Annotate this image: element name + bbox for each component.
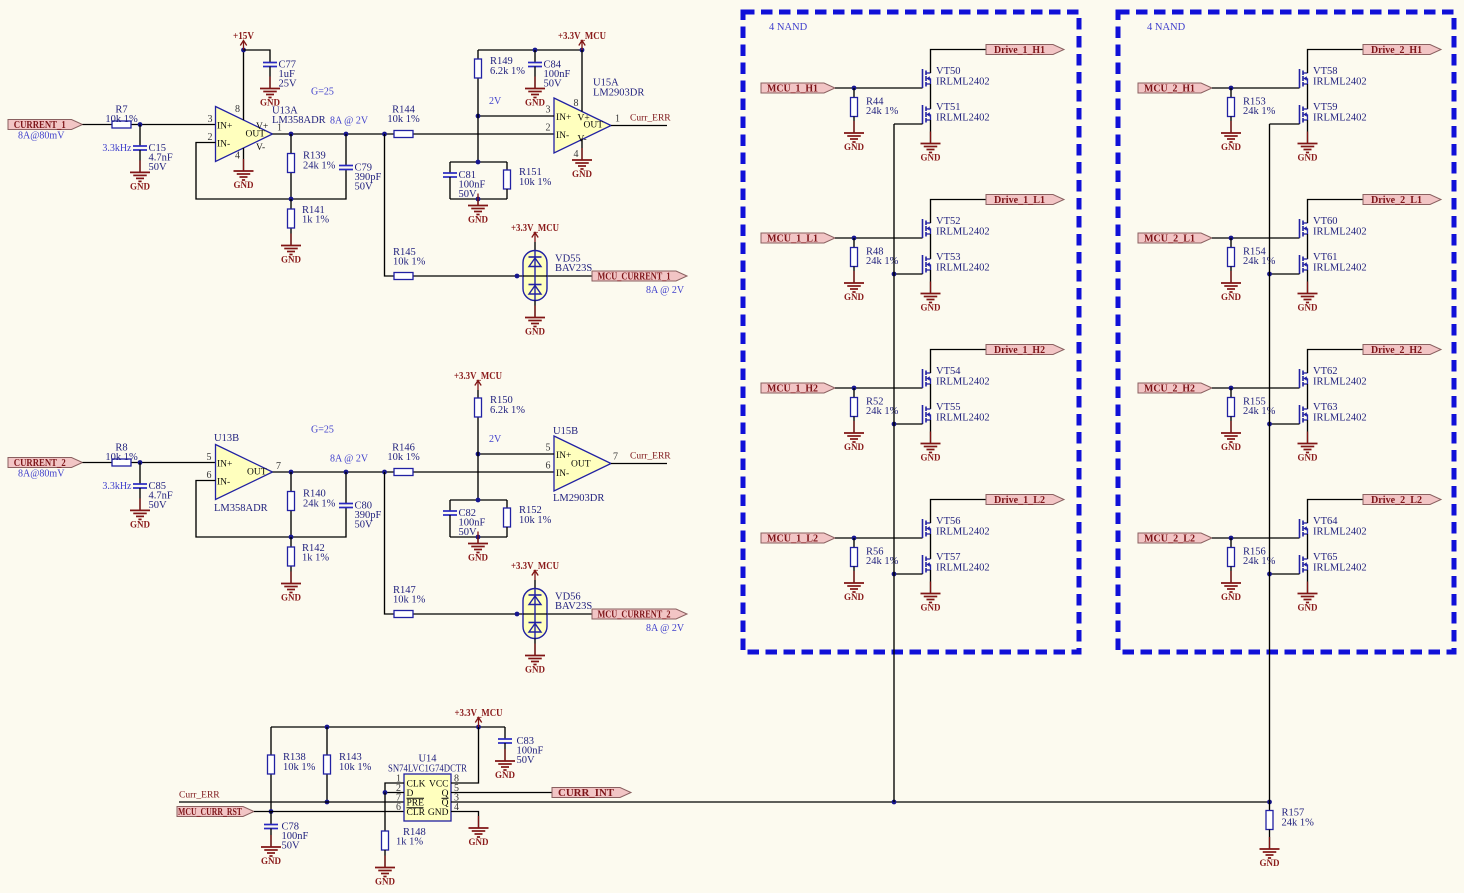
svg-text:IRLML2402: IRLML2402	[936, 263, 990, 274]
svg-text:VT56: VT56	[936, 516, 961, 527]
svg-text:PRE: PRE	[407, 799, 425, 809]
svg-text:VT59: VT59	[1313, 102, 1338, 113]
svg-text:GND: GND	[921, 303, 942, 313]
svg-text:GND: GND	[469, 837, 490, 847]
svg-text:8A@80mV: 8A@80mV	[18, 469, 65, 480]
svg-text:IRLML2402: IRLML2402	[936, 563, 990, 574]
svg-text:IRLML2402: IRLML2402	[936, 113, 990, 124]
svg-text:24k 1%: 24k 1%	[303, 161, 336, 172]
svg-text:4 NAND: 4 NAND	[1147, 22, 1186, 33]
svg-text:IN-: IN-	[556, 131, 569, 141]
svg-text:50V: 50V	[355, 182, 374, 193]
svg-text:+3.3V_MCU: +3.3V_MCU	[454, 371, 502, 382]
svg-text:6.2k 1%: 6.2k 1%	[490, 405, 525, 416]
svg-text:IN+: IN+	[217, 122, 232, 132]
svg-text:VT61: VT61	[1313, 252, 1338, 263]
svg-text:24k 1%: 24k 1%	[303, 499, 336, 510]
svg-text:GND: GND	[260, 98, 281, 108]
svg-text:5: 5	[207, 452, 212, 463]
svg-text:Drive_2_H1: Drive_2_H1	[1371, 45, 1422, 56]
svg-text:2V: 2V	[489, 434, 502, 445]
svg-text:IRLML2402: IRLML2402	[1313, 77, 1367, 88]
svg-text:GND: GND	[525, 665, 546, 675]
svg-text:3: 3	[546, 105, 551, 116]
svg-text:10k 1%: 10k 1%	[519, 177, 552, 188]
svg-text:LM2903DR: LM2903DR	[553, 493, 604, 504]
svg-text:8: 8	[235, 104, 240, 115]
svg-text:GND: GND	[234, 180, 255, 190]
svg-text:10k 1%: 10k 1%	[105, 114, 138, 125]
svg-text:3: 3	[208, 114, 213, 125]
svg-text:VT65: VT65	[1313, 552, 1338, 563]
svg-text:IRLML2402: IRLML2402	[1313, 113, 1367, 124]
svg-text:1k 1%: 1k 1%	[302, 215, 329, 226]
svg-text:Curr_ERR: Curr_ERR	[630, 452, 671, 462]
svg-text:10k 1%: 10k 1%	[393, 595, 426, 606]
svg-text:7: 7	[613, 452, 618, 463]
svg-text:10k 1%: 10k 1%	[393, 257, 426, 268]
svg-text:10k 1%: 10k 1%	[387, 114, 420, 125]
svg-text:GND: GND	[1298, 603, 1319, 613]
svg-text:VT55: VT55	[936, 402, 961, 413]
svg-text:GND: GND	[1221, 142, 1242, 152]
svg-text:Curr_ERR: Curr_ERR	[630, 114, 671, 124]
svg-text:+15V: +15V	[233, 31, 255, 42]
svg-text:VT62: VT62	[1313, 366, 1338, 377]
svg-text:MCU_CURR_RST: MCU_CURR_RST	[178, 807, 242, 818]
svg-text:VT64: VT64	[1313, 516, 1338, 527]
svg-text:VT57: VT57	[936, 552, 961, 563]
svg-text:25V: 25V	[279, 79, 298, 90]
svg-text:GND: GND	[921, 603, 942, 613]
svg-text:24k 1%: 24k 1%	[1243, 556, 1276, 567]
svg-text:GND: GND	[1221, 592, 1242, 602]
svg-text:OUT: OUT	[571, 460, 591, 470]
svg-text:GND: GND	[525, 327, 546, 337]
svg-text:3.3kHz: 3.3kHz	[102, 481, 132, 492]
svg-text:Drive_1_H2: Drive_1_H2	[994, 345, 1045, 356]
svg-text:GND: GND	[921, 153, 942, 163]
svg-text:1: 1	[277, 123, 282, 134]
svg-text:4 NAND: 4 NAND	[769, 22, 808, 33]
svg-text:1k 1%: 1k 1%	[302, 553, 329, 564]
svg-text:50V: 50V	[544, 79, 563, 90]
svg-text:GND: GND	[468, 553, 489, 563]
svg-text:MCU_1_H1: MCU_1_H1	[767, 84, 818, 95]
svg-text:IN+: IN+	[217, 460, 232, 470]
svg-text:IN-: IN-	[217, 478, 230, 488]
svg-text:U15B: U15B	[553, 426, 578, 437]
svg-text:IRLML2402: IRLML2402	[1313, 563, 1367, 574]
svg-text:MCU_1_H2: MCU_1_H2	[767, 384, 818, 395]
svg-text:V+: V+	[256, 122, 268, 132]
svg-text:LM358ADR: LM358ADR	[214, 503, 268, 514]
svg-text:MCU_2_H1: MCU_2_H1	[1144, 84, 1195, 95]
svg-text:VT63: VT63	[1313, 402, 1338, 413]
svg-text:7: 7	[276, 461, 281, 472]
svg-text:GND: GND	[1221, 292, 1242, 302]
svg-text:GND: GND	[495, 770, 516, 780]
svg-text:GND: GND	[261, 856, 282, 866]
svg-text:MCU_CURRENT_2: MCU_CURRENT_2	[598, 610, 671, 621]
svg-text:8: 8	[574, 98, 579, 109]
svg-text:CLR: CLR	[407, 808, 426, 818]
svg-text:10k 1%: 10k 1%	[105, 452, 138, 463]
svg-text:24k 1%: 24k 1%	[1243, 256, 1276, 267]
svg-text:IRLML2402: IRLML2402	[1313, 263, 1367, 274]
svg-text:50V: 50V	[149, 162, 168, 173]
svg-text:6: 6	[207, 470, 212, 481]
svg-text:GND: GND	[130, 181, 151, 191]
svg-text:GND: GND	[1298, 303, 1319, 313]
svg-text:GND: GND	[921, 453, 942, 463]
svg-text:GND: GND	[130, 519, 151, 529]
svg-text:IN-: IN-	[217, 140, 230, 150]
svg-text:GND: GND	[1298, 153, 1319, 163]
svg-text:+3.3V_MCU: +3.3V_MCU	[511, 561, 559, 572]
svg-text:8A @ 2V: 8A @ 2V	[330, 116, 369, 127]
svg-text:6.2k 1%: 6.2k 1%	[490, 66, 525, 77]
svg-text:IRLML2402: IRLML2402	[936, 227, 990, 238]
svg-text:+3.3V_MCU: +3.3V_MCU	[558, 31, 606, 42]
svg-text:VT50: VT50	[936, 66, 961, 77]
svg-text:VT54: VT54	[936, 366, 961, 377]
svg-text:Drive_1_L1: Drive_1_L1	[994, 195, 1045, 206]
svg-text:G=25: G=25	[311, 425, 334, 436]
svg-text:GND: GND	[572, 169, 593, 179]
svg-text:10k 1%: 10k 1%	[283, 762, 316, 773]
svg-text:Drive_2_H2: Drive_2_H2	[1371, 345, 1422, 356]
svg-text:MCU_1_L2: MCU_1_L2	[767, 534, 818, 545]
svg-text:IN+: IN+	[556, 451, 571, 461]
svg-text:10k 1%: 10k 1%	[339, 762, 372, 773]
svg-text:GND: GND	[844, 142, 865, 152]
svg-text:1k 1%: 1k 1%	[396, 837, 423, 848]
svg-text:CURRENT_2: CURRENT_2	[14, 458, 66, 469]
svg-text:24k 1%: 24k 1%	[1243, 106, 1276, 117]
svg-text:GND: GND	[844, 442, 865, 452]
svg-text:MCU_CURRENT_1: MCU_CURRENT_1	[598, 272, 671, 283]
svg-text:24k 1%: 24k 1%	[1282, 818, 1315, 829]
svg-text:LM2903DR: LM2903DR	[593, 88, 644, 99]
svg-text:Drive_2_L1: Drive_2_L1	[1371, 195, 1422, 206]
svg-text:BAV23S: BAV23S	[555, 263, 592, 274]
svg-text:2V: 2V	[489, 96, 502, 107]
svg-text:V+: V+	[578, 114, 590, 124]
svg-text:D: D	[407, 789, 414, 799]
svg-text:GND: GND	[844, 292, 865, 302]
svg-text:Drive_1_H1: Drive_1_H1	[994, 45, 1045, 56]
svg-text:IRLML2402: IRLML2402	[1313, 227, 1367, 238]
svg-text:IRLML2402: IRLML2402	[936, 377, 990, 388]
svg-text:V-: V-	[256, 143, 265, 153]
svg-text:IRLML2402: IRLML2402	[936, 527, 990, 538]
svg-text:Drive_1_L2: Drive_1_L2	[994, 495, 1045, 506]
svg-text:GND: GND	[281, 593, 302, 603]
svg-text:BAV23S: BAV23S	[555, 601, 592, 612]
svg-text:4: 4	[454, 802, 459, 813]
svg-text:Curr_ERR: Curr_ERR	[179, 791, 220, 801]
svg-text:Drive_2_L2: Drive_2_L2	[1371, 495, 1422, 506]
svg-text:IRLML2402: IRLML2402	[1313, 413, 1367, 424]
svg-text:MCU_2_L1: MCU_2_L1	[1144, 234, 1195, 245]
svg-text:VT58: VT58	[1313, 66, 1338, 77]
svg-text:10k 1%: 10k 1%	[519, 515, 552, 526]
svg-text:+3.3V_MCU: +3.3V_MCU	[511, 223, 559, 234]
svg-text:IRLML2402: IRLML2402	[936, 413, 990, 424]
svg-text:GND: GND	[1221, 442, 1242, 452]
svg-text:5: 5	[546, 443, 551, 454]
svg-text:MCU_1_L1: MCU_1_L1	[767, 234, 818, 245]
svg-text:VCC: VCC	[429, 780, 449, 790]
svg-text:Q: Q	[442, 799, 449, 809]
svg-text:2: 2	[208, 132, 213, 143]
svg-text:6: 6	[396, 802, 401, 813]
svg-text:G=25: G=25	[311, 87, 334, 98]
svg-text:4: 4	[574, 149, 579, 160]
svg-text:MCU_2_H2: MCU_2_H2	[1144, 384, 1195, 395]
svg-text:8A @ 2V: 8A @ 2V	[646, 623, 685, 634]
svg-text:GND: GND	[525, 98, 546, 108]
svg-text:Q: Q	[442, 789, 449, 799]
svg-text:VT60: VT60	[1313, 216, 1338, 227]
svg-text:IRLML2402: IRLML2402	[1313, 527, 1367, 538]
svg-text:10k 1%: 10k 1%	[387, 452, 420, 463]
svg-text:VT53: VT53	[936, 252, 961, 263]
svg-text:IRLML2402: IRLML2402	[936, 77, 990, 88]
svg-text:3.3kHz: 3.3kHz	[102, 143, 132, 154]
svg-text:+3.3V_MCU: +3.3V_MCU	[455, 708, 503, 719]
svg-text:VT52: VT52	[936, 216, 961, 227]
svg-text:IN-: IN-	[556, 469, 569, 479]
svg-text:50V: 50V	[355, 520, 374, 531]
svg-text:50V: 50V	[517, 755, 536, 766]
svg-text:CLK: CLK	[407, 780, 426, 790]
svg-text:GND: GND	[1260, 858, 1281, 868]
svg-text:U13B: U13B	[214, 433, 239, 444]
svg-text:2: 2	[546, 123, 551, 134]
svg-text:GND: GND	[468, 215, 489, 225]
svg-text:GND: GND	[428, 808, 449, 818]
svg-text:50V: 50V	[149, 500, 168, 511]
svg-text:4: 4	[235, 151, 240, 162]
svg-text:24k 1%: 24k 1%	[1243, 406, 1276, 417]
svg-text:8A @ 2V: 8A @ 2V	[646, 285, 685, 296]
svg-text:1: 1	[615, 114, 620, 125]
svg-text:GND: GND	[844, 592, 865, 602]
svg-text:6: 6	[546, 461, 551, 472]
svg-text:8A@80mV: 8A@80mV	[18, 131, 65, 142]
svg-text:GND: GND	[1298, 453, 1319, 463]
svg-text:GND: GND	[375, 877, 396, 887]
svg-text:CURRENT_1: CURRENT_1	[14, 120, 66, 131]
svg-text:V-: V-	[578, 135, 587, 145]
svg-text:CURR_INT: CURR_INT	[558, 788, 614, 799]
svg-text:8A @ 2V: 8A @ 2V	[330, 454, 369, 465]
svg-text:MCU_2_L2: MCU_2_L2	[1144, 534, 1195, 545]
svg-text:VT51: VT51	[936, 102, 961, 113]
svg-text:GND: GND	[281, 255, 302, 265]
svg-text:IRLML2402: IRLML2402	[1313, 377, 1367, 388]
svg-text:OUT: OUT	[247, 468, 267, 478]
svg-text:IN+: IN+	[556, 113, 571, 123]
svg-text:24k 1%: 24k 1%	[866, 106, 899, 117]
svg-text:50V: 50V	[282, 841, 301, 852]
